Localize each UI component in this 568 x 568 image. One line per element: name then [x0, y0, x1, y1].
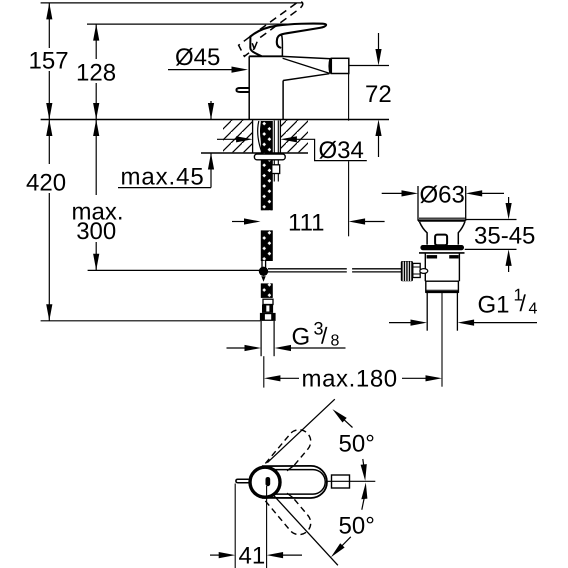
svg-text:4: 4 — [529, 301, 538, 318]
svg-text:420: 420 — [26, 170, 66, 197]
short rod above junction dot — [261, 261, 263, 268]
junction dot — [259, 267, 268, 276]
svg-text:/: / — [520, 290, 527, 316]
solid lever handle — [250, 24, 326, 48]
extension line from aerator edge down across deck — [348, 74, 350, 121]
deck hole edges — [252, 120, 254, 154]
dimension 128 vertical line — [95, 24, 97, 119]
drain flange sides / extension lines — [417, 186, 419, 221]
braided hose middle segment — [262, 230, 272, 261]
dimension 111 — [232, 221, 247, 223]
Ø63 dimension — [382, 192, 405, 194]
braided hose lower segment — [262, 283, 272, 298]
svg-text:35-45: 35-45 — [474, 223, 535, 250]
41 dimension arrows — [210, 554, 222, 556]
max300 bottom extension line / pop-up rod left — [88, 269, 260, 271]
dimension max45 lower arrow and leader — [210, 153, 212, 188]
tail pipe — [426, 293, 428, 331]
arrow 128 top — [93, 24, 99, 40]
mounting stud — [273, 121, 275, 154]
plug lift knob — [435, 235, 447, 246]
420 bottom extension line — [41, 320, 261, 322]
overflow slots — [427, 255, 438, 258]
extension line (128 ref) — [87, 23, 291, 25]
svg-text:Ø34: Ø34 — [319, 137, 364, 164]
Ø34 dimension arrows and stepped leader — [217, 138, 239, 140]
spout top edge — [283, 56, 331, 58]
drain centerline — [441, 293, 443, 387]
svg-text:Ø63: Ø63 — [420, 182, 465, 209]
50 lower leader to diagonal — [331, 543, 345, 557]
junction tick top — [287, 466, 294, 471]
arrow max300 top — [93, 120, 99, 137]
arrow 157 top — [46, 3, 52, 20]
plan knob pill — [236, 479, 249, 482]
hose end nut stack — [263, 299, 273, 304]
50 upper leader to centerline — [361, 464, 367, 481]
connector collar — [413, 263, 420, 277]
lever neck right edge — [281, 35, 284, 56]
drain bottom collar — [426, 281, 459, 292]
arrow 420 top — [46, 120, 52, 137]
pop-up rod to drain (double line with break) — [268, 268, 347, 270]
deck hatching right of hole — [281, 120, 309, 152]
dimension 72: top extension line at spout outlet — [349, 65, 389, 67]
lever base left edge and bottom — [250, 36, 261, 56]
junction tick bottom — [287, 493, 294, 498]
max.180 dimension — [263, 356, 265, 387]
svg-text:max.180: max.180 — [302, 366, 398, 393]
dashed lever (raised position) — [239, 2, 303, 57]
50 lower leader to centerline — [361, 483, 367, 500]
svg-text:/: / — [321, 323, 328, 349]
svg-text:41: 41 — [239, 543, 266, 568]
white boxes under dimension texts — [26, 48, 72, 71]
flange bottom edges — [419, 217, 465, 219]
deck hatching left of hole — [223, 120, 308, 152]
aerator junction arc — [330, 59, 331, 74]
arrow max300 bottom — [93, 254, 99, 271]
dimension max300 vertical line — [95, 120, 97, 271]
knurled nut on left — [401, 261, 413, 281]
35-45 dimension — [466, 219, 517, 221]
lower 50 diagonal — [272, 494, 338, 566]
upper 50 diagonal — [267, 399, 335, 463]
body circle — [250, 467, 280, 497]
svg-text:G: G — [292, 324, 311, 351]
svg-text:72: 72 — [365, 81, 392, 108]
svg-text:Ø45: Ø45 — [175, 44, 220, 71]
faucet body left edge — [248, 56, 250, 119]
washer below gasket — [419, 252, 465, 254]
deck bottom line — [201, 152, 308, 154]
dimension 420 vertical line — [48, 120, 50, 321]
escutcheon washer below deck — [254, 154, 285, 160]
faucet body right edge — [282, 81, 284, 120]
taper below dot — [261, 276, 265, 282]
G3/8 dimension — [227, 347, 248, 349]
pop-up knob on body left — [236, 88, 248, 92]
svg-text:50°: 50° — [339, 513, 375, 540]
drain body walls — [424, 253, 426, 281]
svg-text:157: 157 — [29, 48, 69, 75]
G1 1/4 dimension — [389, 322, 414, 324]
deck top line — [41, 119, 389, 121]
72 bottom arrow — [378, 133, 380, 157]
dashed swivel capsule lower (-50) — [264, 484, 311, 535]
aerator stub plan — [332, 475, 350, 488]
50 upper leader to diagonal — [332, 409, 346, 422]
spout mid diagonal — [283, 58, 330, 73]
extension line top (157 ref) — [41, 2, 303, 4]
svg-text:G1: G1 — [478, 292, 510, 319]
braided supply hose (checker pattern) upper — [262, 121, 272, 210]
svg-text:8: 8 — [331, 333, 340, 350]
Ø45 leader — [168, 69, 236, 71]
svg-text:max.45: max.45 — [121, 164, 205, 191]
flange taper left — [420, 222, 428, 245]
plan centerline to right — [327, 480, 376, 482]
dashed swivel capsule upper (+50) — [264, 430, 311, 481]
svg-text:300: 300 — [76, 218, 116, 245]
inner line end dots — [275, 469, 277, 471]
svg-text:50°: 50° — [339, 431, 375, 458]
spout bottom diagonal — [283, 74, 329, 81]
plan center dot — [266, 477, 271, 486]
clamp pin — [420, 269, 428, 274]
G3/8 thread stub — [260, 321, 262, 356]
faucet body top edge — [249, 55, 283, 57]
dimension 157 vertical line — [48, 3, 50, 120]
arrow 420 bottom — [46, 304, 52, 321]
rubber gasket (black) — [420, 245, 464, 250]
svg-text:111: 111 — [288, 210, 324, 237]
svg-text:128: 128 — [76, 60, 116, 87]
curved guide lines in deck hole — [258, 121, 262, 153]
solid lever outer capsule — [262, 466, 327, 498]
41 dimension extension lines — [234, 484, 236, 568]
arrow 157 bottom — [46, 103, 52, 120]
dimension max45 upper arrow — [210, 101, 212, 120]
flange taper right — [458, 222, 465, 245]
stud nut — [272, 165, 280, 174]
72 top arrow — [378, 33, 380, 52]
arrow 128 bottom — [93, 103, 99, 120]
aerator — [331, 58, 349, 73]
solid lever inner capsule — [272, 470, 325, 495]
